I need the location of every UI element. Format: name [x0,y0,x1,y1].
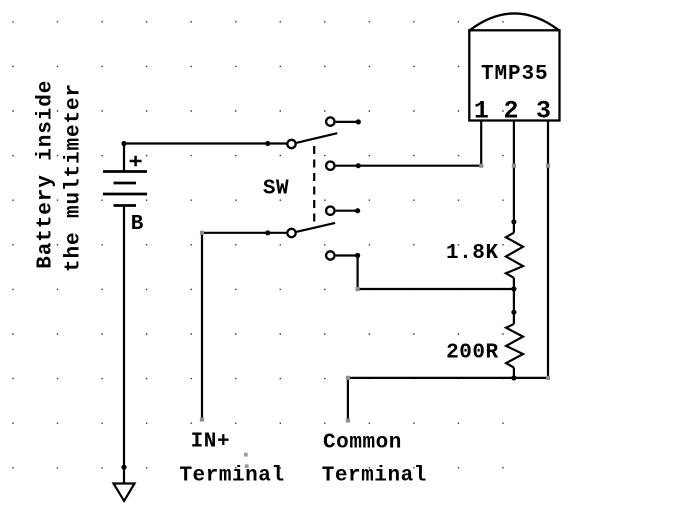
junction dot at throw B2 corner [355,253,360,258]
battery B plates [103,172,147,206]
switch SW throw contact B2 [326,251,334,259]
wire IN+ terminal to SW pole B [202,233,287,420]
IC U1 TMP35 package [469,13,559,120]
junction battery+ top [121,141,126,146]
junction on battery+ wire [265,141,270,146]
junction dot on pin 2 wire [511,219,516,224]
wire throw B2 to divider node [336,256,514,290]
wire pin 2 to R1 [513,166,515,233]
svg-text:1.8K: 1.8K [446,242,499,265]
wire pin 3 down to rail [547,166,549,378]
switch SW throw contact B1 [326,207,334,215]
junction divider node [511,286,516,291]
wire common rail [348,377,548,379]
wire battery+ to SW pole A [124,144,287,172]
wire common terminal riser [347,378,349,421]
grip pin 2 node [512,164,516,168]
grip IN+ corner [200,231,204,235]
switch SW throw contact A2 [326,162,334,170]
switch SW pole B contact [287,229,295,237]
grips near IN+ terminal label [244,453,249,468]
wire divider node to R2 [513,289,515,324]
wire pin 2 lead [513,121,515,166]
wire R1 to divider node [513,278,515,289]
resistor R2 200R [506,324,523,368]
grip pin 1 node [479,164,483,168]
grip IN+ terminal end [200,417,204,421]
svg-text:2: 2 [503,97,518,126]
junction dot above R2 [511,310,516,315]
switch SW pole A contact [287,140,295,148]
svg-text:SW: SW [263,178,289,201]
switch SW pole A arm [297,133,338,143]
svg-text:IN+: IN+ [191,431,230,454]
svg-text:the multimeter: the multimeter [63,83,86,272]
junction dot throw A1 stub [356,119,361,124]
junction dot on pin 1 wire [356,163,361,168]
wire throw A2 to TMP35 pin 1 [336,165,482,167]
grip pin 3 rail end [546,376,550,380]
battery + polarity label [130,156,142,166]
label Battery inside the multimeter [35,80,86,272]
grip common terminal end [346,418,350,422]
svg-text:Battery inside: Battery inside [35,80,58,269]
wire throw B1 stub [336,210,358,212]
grip pin 3 node [546,164,550,168]
svg-text:TMP35: TMP35 [481,63,549,86]
wire pin 1 lead [480,121,482,166]
junction on battery- wire [121,465,126,470]
junction on pole B feed [265,230,270,235]
switch SW mechanical linkage [313,146,315,222]
ground [114,484,135,501]
svg-text:Terminal: Terminal [179,465,284,488]
wire pin 3 lead [547,121,549,166]
wire battery- to ground [123,206,125,484]
switch SW pole B arm [297,223,336,232]
junction common rail [511,375,516,380]
svg-text:200R: 200R [446,342,499,365]
svg-text:B: B [131,213,144,236]
wire R2 to common rail [513,368,515,378]
wire throw A1 stub [336,121,359,123]
switch SW throw contact A1 [326,117,334,125]
grip wire corner B2 [356,287,360,291]
resistor R1 1.8K [506,233,523,278]
junction dot throw B1 stub [355,208,360,213]
svg-text:Common: Common [323,431,402,454]
svg-text:Terminal: Terminal [322,465,427,488]
grip riser corner [346,376,350,380]
